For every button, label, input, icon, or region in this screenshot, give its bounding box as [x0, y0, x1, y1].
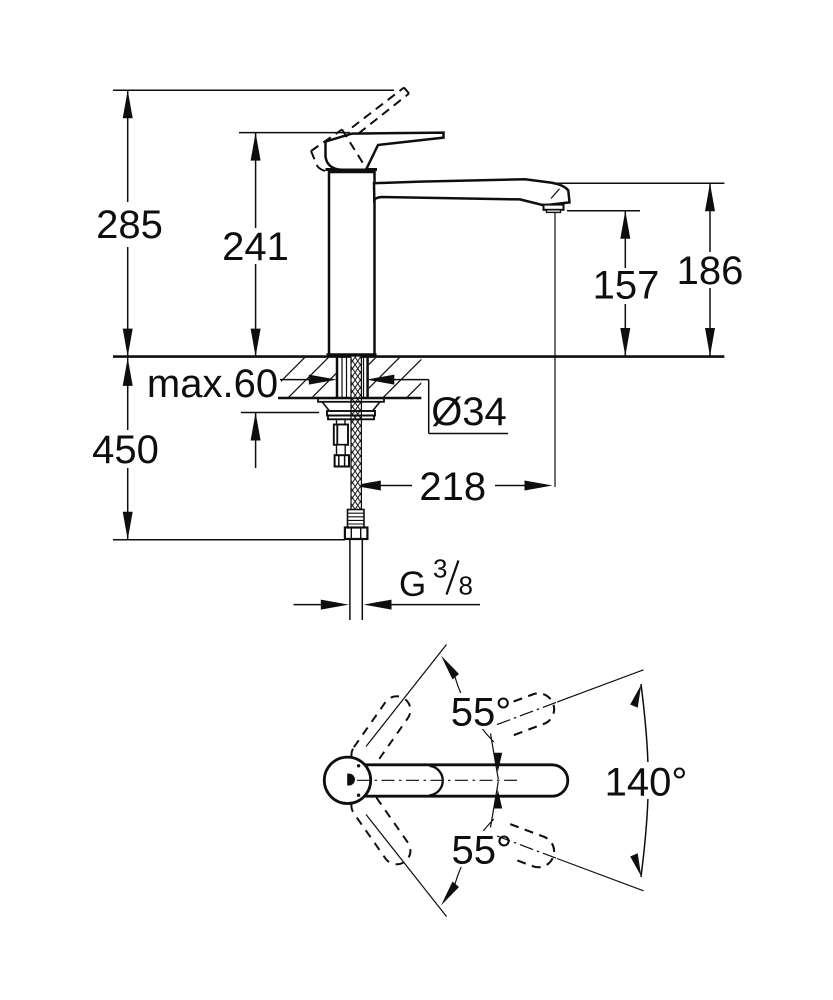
- svg-text:140°: 140°: [605, 761, 688, 805]
- svg-text:241: 241: [222, 225, 289, 269]
- svg-text:max.60: max.60: [147, 362, 278, 406]
- svg-text:218: 218: [419, 465, 486, 509]
- svg-text:8: 8: [459, 571, 473, 601]
- svg-text:55°: 55°: [452, 829, 513, 873]
- svg-text:3: 3: [433, 554, 447, 584]
- svg-text:Ø34: Ø34: [431, 390, 507, 434]
- svg-text:285: 285: [96, 203, 163, 247]
- svg-text:55°: 55°: [451, 691, 512, 735]
- svg-text:157: 157: [593, 264, 660, 308]
- svg-text:450: 450: [92, 428, 159, 472]
- svg-text:G: G: [399, 565, 426, 604]
- svg-text:186: 186: [677, 249, 744, 293]
